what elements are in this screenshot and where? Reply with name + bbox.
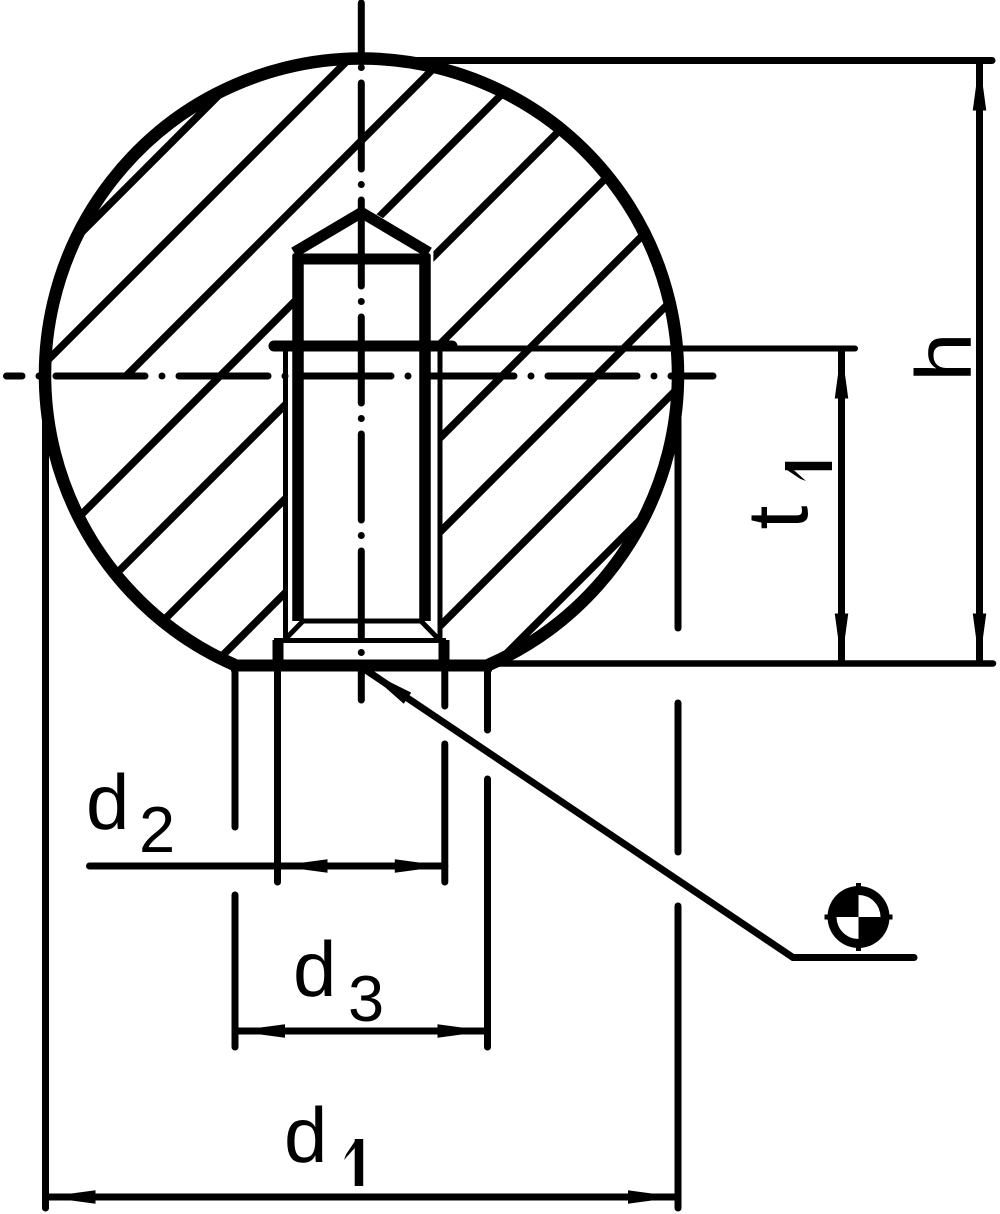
extension d3 left (2 segments) <box>232 672 239 1047</box>
svg-text:h: h <box>899 332 987 382</box>
thread end thick line <box>274 341 452 352</box>
arrow d2 right <box>395 859 445 873</box>
bottom face line <box>231 660 492 672</box>
svg-text:d: d <box>86 758 129 846</box>
dimension line d2 <box>90 863 445 870</box>
svg-text:d: d <box>284 1091 327 1179</box>
extension d2 right (2 segments) <box>441 672 448 882</box>
chamfer right <box>421 621 440 640</box>
dimension line t1 <box>838 349 845 663</box>
thread major dia right <box>438 352 443 641</box>
hole minor dia left <box>292 255 304 621</box>
arrow d1 right <box>628 1190 678 1204</box>
dimension line h <box>976 61 983 663</box>
arrow t1 bottom <box>835 614 849 664</box>
chamfer left <box>285 621 304 640</box>
dimension line d1 <box>46 1194 679 1201</box>
thread major dia left <box>283 352 288 641</box>
extension line thread end (t1) <box>452 346 855 352</box>
svg-text:d: d <box>293 925 336 1013</box>
drill cone tip <box>294 213 429 253</box>
counterbore wall right <box>439 640 450 664</box>
ball outline (sphere with flat bottom) <box>45 59 678 665</box>
arrow d3 right <box>438 1024 488 1038</box>
extension d2 left <box>274 672 281 882</box>
datum target symbol <box>825 883 893 951</box>
counterbore wall left <box>273 640 284 664</box>
vertical centerline <box>358 3 365 700</box>
arrow h top <box>973 61 987 111</box>
horizontal centerline <box>7 373 714 380</box>
leader line <box>366 670 915 958</box>
arrow t1 top <box>835 349 849 399</box>
hole minor dia right <box>419 255 431 621</box>
extension d1 left <box>42 378 49 1208</box>
svg-text:2: 2 <box>139 793 175 866</box>
svg-text:3: 3 <box>348 962 384 1035</box>
counterbore top line <box>274 638 446 643</box>
extension d1 right (3 segments) <box>675 378 682 1208</box>
dimension line d3 <box>235 1028 488 1035</box>
svg-text:t: t <box>731 506 827 530</box>
arrow d1 left <box>46 1190 96 1204</box>
arrow d3 left <box>235 1024 285 1038</box>
label t subscript 1 <box>785 462 832 481</box>
hole void (unhatched) <box>269 206 453 667</box>
arrow d2 left <box>278 859 328 873</box>
hole top line <box>293 254 431 265</box>
thread runout line <box>303 619 421 624</box>
extension line bottom (h, t1) <box>490 660 993 667</box>
section hatching of ball <box>0 0 1000 675</box>
leader arrow <box>362 665 411 704</box>
arrow h bottom <box>973 614 987 664</box>
extension d3 right (2 segments) <box>484 672 491 1047</box>
extension line top (h) <box>370 57 992 64</box>
